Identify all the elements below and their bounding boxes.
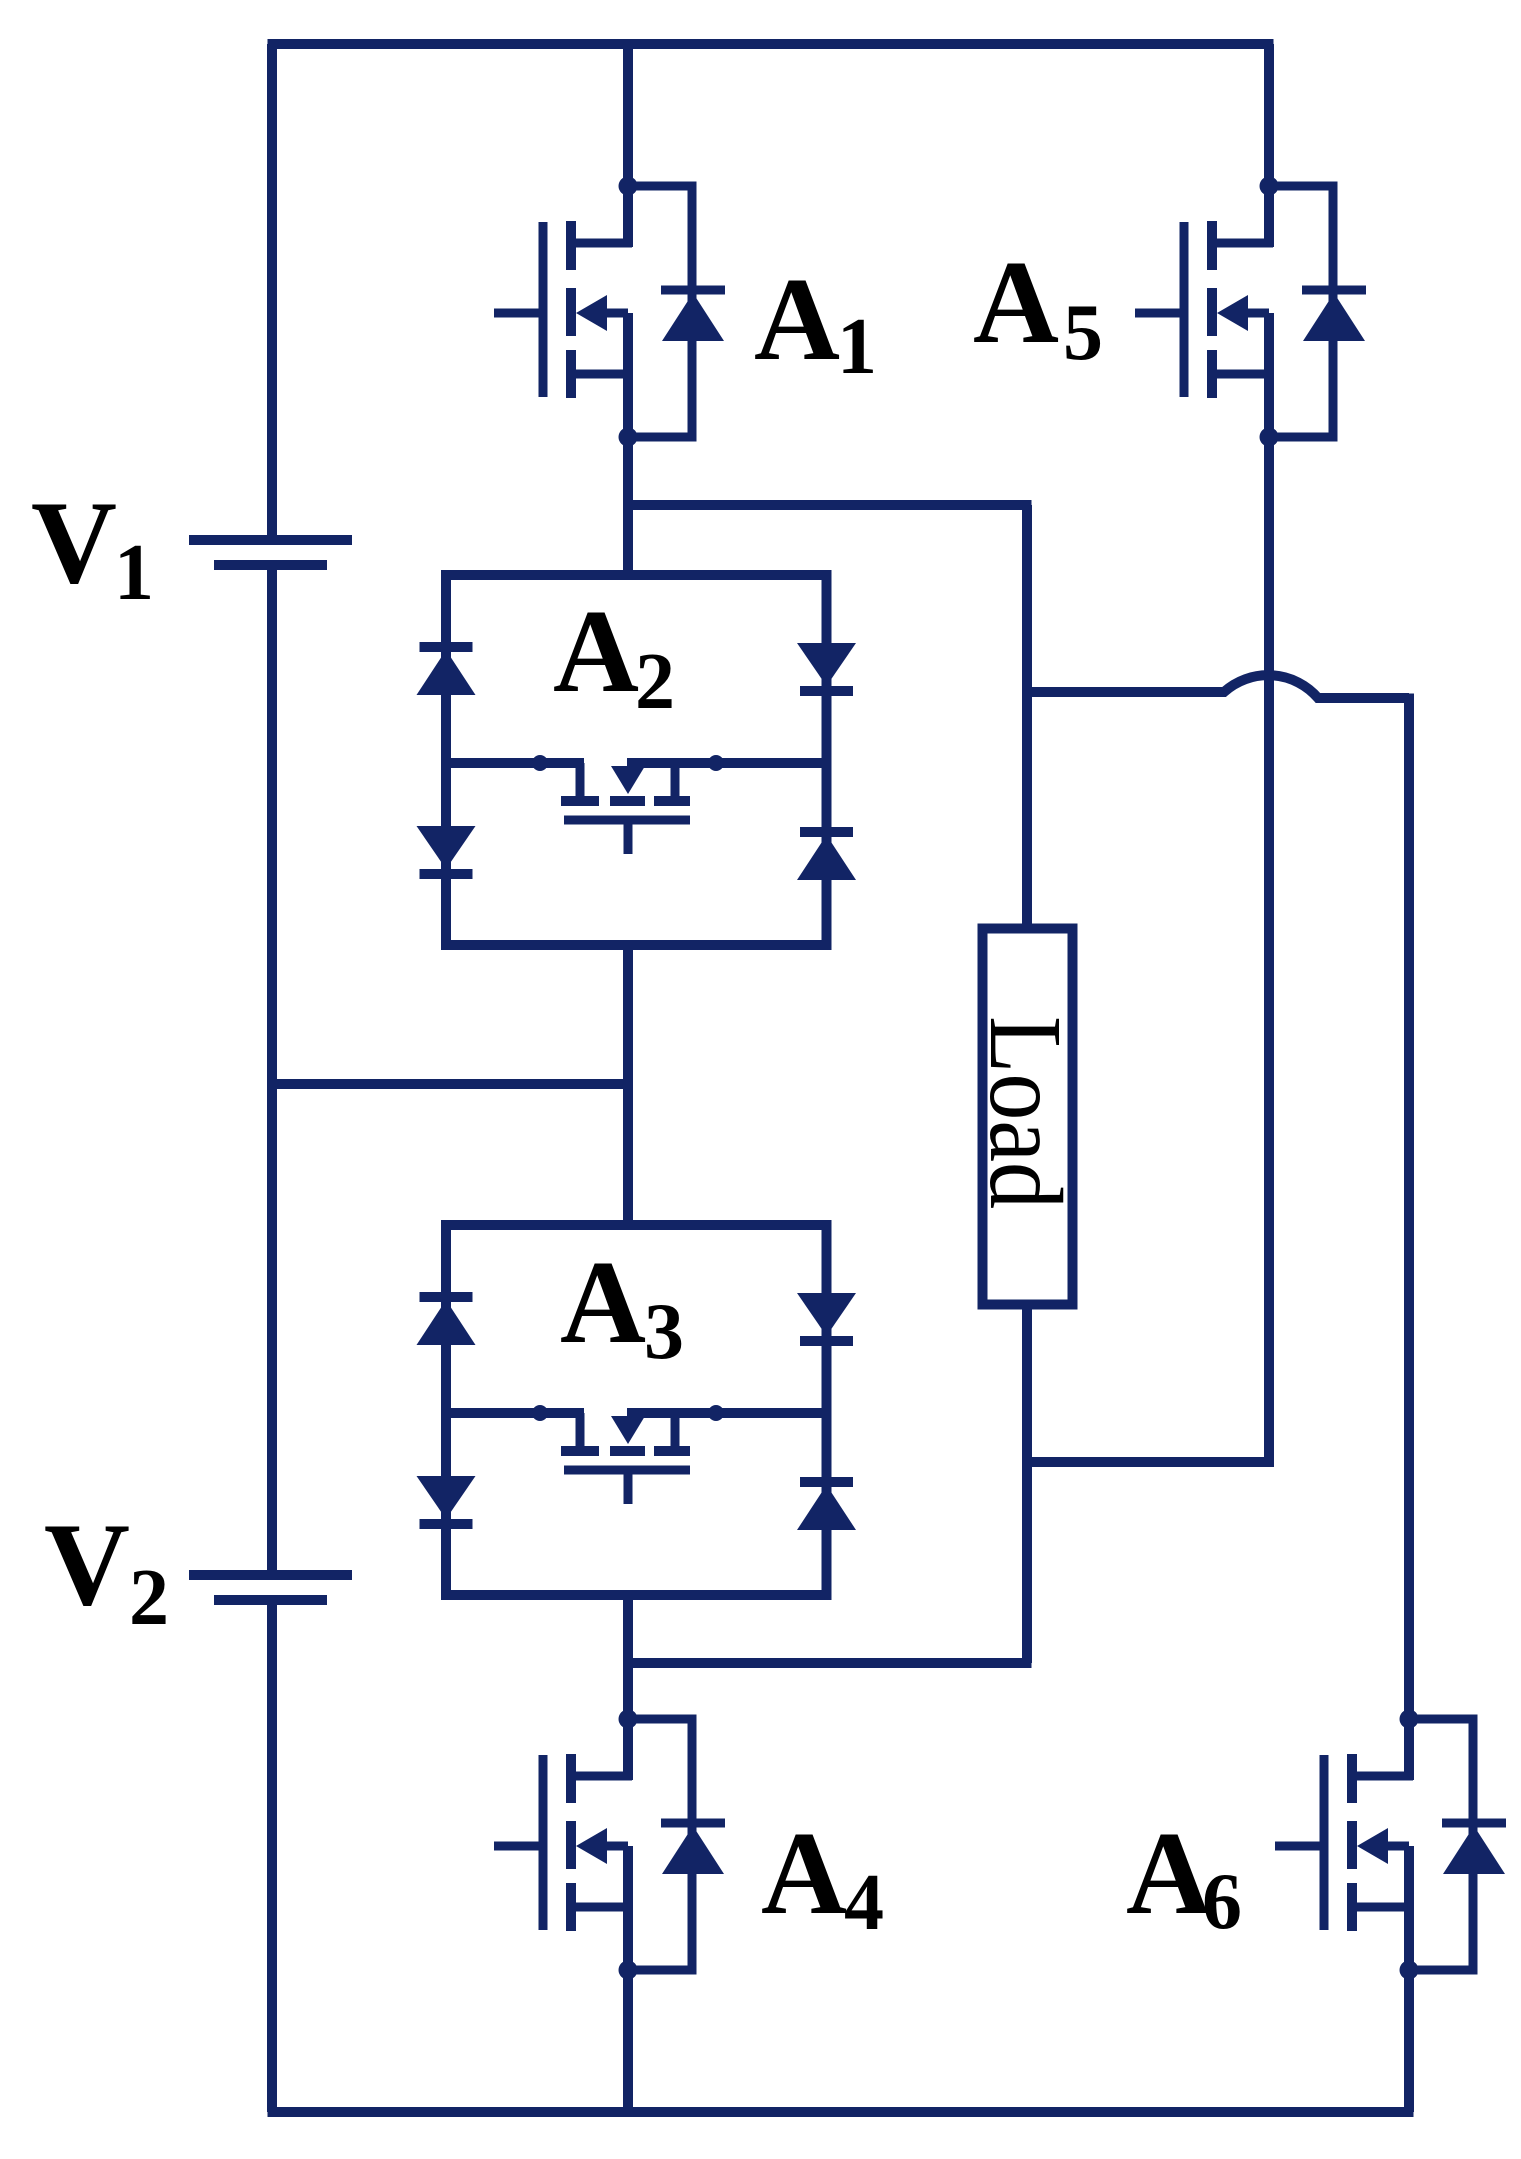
svg-text:A: A	[560, 1236, 646, 1368]
svg-text:4: 4	[844, 1859, 884, 1947]
load resistor box	[983, 929, 1073, 1305]
wire A3 bottom to Load bottom horizontal	[628, 1658, 1032, 1668]
svg-text:V: V	[44, 1498, 130, 1630]
svg-text:3: 3	[644, 1288, 684, 1376]
A3 lower-left diode (pointing down)	[417, 1476, 476, 1524]
svg-text:2: 2	[635, 638, 675, 726]
wire mid-tap horizontal (batteries midpoint)	[272, 1079, 628, 1089]
wire A5 source vertical (passes under hop)	[1264, 313, 1274, 1462]
svg-text:V: V	[31, 476, 117, 608]
A2 upper-left diode (pointing up)	[417, 647, 476, 695]
wire A1 drain vertical	[623, 44, 633, 247]
svg-text:Load: Load	[968, 1016, 1083, 1209]
wire A5 source to Load bottom horizontal	[1027, 1457, 1274, 1467]
battery V1	[189, 540, 352, 565]
svg-text:A: A	[553, 585, 639, 717]
wire A6 source vertical	[1404, 1846, 1414, 2112]
A3 lower-right diode (pointing up)	[797, 1482, 856, 1530]
A3 upper-right diode (pointing down)	[797, 1293, 856, 1341]
wire A2 middle-right segment	[627, 758, 827, 768]
transistor A5 (MOSFET with body diode)	[1135, 177, 1366, 447]
transistor A4 (MOSFET with body diode)	[494, 1710, 725, 1980]
A2 upper-right diode (pointing down)	[797, 643, 856, 691]
transistor A1 (MOSFET with body diode)	[494, 177, 725, 447]
wire A3 middle-right segment	[627, 1408, 827, 1418]
wire A2 middle-left segment	[446, 758, 584, 768]
svg-text:A: A	[973, 236, 1059, 368]
svg-text:1: 1	[114, 529, 154, 617]
wire top rail (V1+ to A1/A5 drains)	[268, 39, 1274, 49]
switch block A3 outline	[446, 1225, 827, 1595]
battery V2	[189, 1575, 352, 1600]
wire branch with crossover hop to A6 drain	[1027, 675, 1409, 698]
wire A6 drain vertical	[1404, 694, 1414, 1781]
junction dot A3 right	[708, 1405, 724, 1421]
transistor inside A3 (horizontal MOSFET)	[561, 1413, 690, 1504]
svg-text:A: A	[1126, 1807, 1212, 1939]
junction dot A3 left	[532, 1405, 548, 1421]
junction dot A2 left	[532, 755, 548, 771]
transistor A6 (MOSFET with body diode)	[1275, 1710, 1506, 1980]
transistor inside A2 (horizontal MOSFET)	[561, 763, 690, 854]
node A1 source to Load-top horizontal	[628, 500, 1032, 510]
svg-text:2: 2	[129, 1554, 169, 1642]
svg-text:A: A	[754, 253, 840, 385]
wire A3 bottom vertical	[623, 1595, 633, 1663]
wire A3 middle-left segment	[446, 1408, 584, 1418]
junction dot A2 right	[708, 755, 724, 771]
wire bottom rail (A4/A6 sources return)	[268, 2107, 1414, 2117]
wire left rail upper (top rail to battery V1)	[267, 44, 277, 540]
A3 upper-left diode (pointing up)	[417, 1297, 476, 1345]
wire left rail middle (V1- to V2+)	[267, 565, 277, 1575]
wire Load bottom vertical	[1022, 1304, 1032, 1663]
A2 lower-left diode (pointing down)	[417, 826, 476, 874]
wire A4 drain vertical	[623, 1663, 633, 1780]
svg-text:1: 1	[837, 303, 877, 391]
wire left rail lower (V2- to bottom rail)	[267, 1600, 277, 2112]
wire A1 source vertical down to A2 top	[623, 313, 633, 575]
wire A4 source vertical	[623, 1846, 633, 2112]
wire A5 drain vertical	[1264, 44, 1274, 247]
wire A2 bottom vertical to A3 top (through mid-tap)	[623, 945, 633, 1225]
wire Load top vertical	[1022, 505, 1032, 928]
A2 lower-right diode (pointing up)	[797, 832, 856, 880]
svg-text:A: A	[761, 1807, 847, 1939]
switch block A2 outline	[446, 575, 827, 945]
svg-text:5: 5	[1063, 289, 1103, 377]
svg-text:6: 6	[1202, 1858, 1242, 1946]
